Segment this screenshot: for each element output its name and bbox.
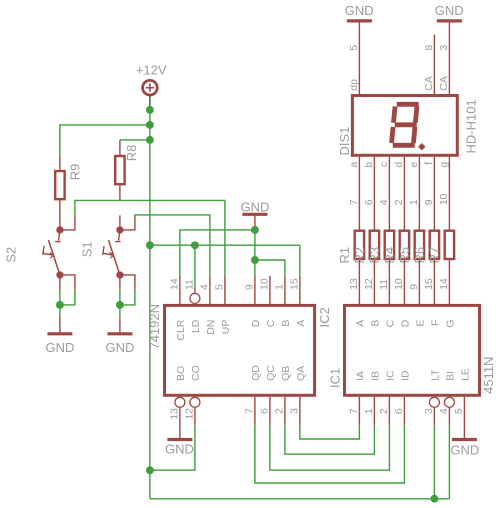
display pin letters a-g: [348, 162, 450, 168]
svg-text:R9: R9: [68, 164, 83, 181]
svg-text:5: 5: [213, 284, 225, 290]
svg-text:ID: ID: [399, 370, 411, 381]
display top pins dp and CA: [359, 23, 449, 95]
wire GND down to IC2 D pin: [254, 230, 256, 276]
resistor R6: [430, 231, 439, 259]
svg-text:LD: LD: [190, 319, 202, 333]
svg-text:c: c: [378, 162, 390, 167]
svg-text:7: 7: [348, 199, 360, 205]
svg-text:1: 1: [363, 408, 375, 414]
pin 13 bubble BO: [175, 397, 185, 407]
svg-text:15: 15: [423, 278, 435, 290]
svg-text:QA: QA: [295, 366, 307, 381]
ground below S1: [107, 317, 132, 333]
pin 4 bubble BI: [444, 397, 454, 407]
node switch S1 bottom contact: [116, 271, 123, 278]
svg-text:LE: LE: [459, 368, 471, 381]
svg-text:13: 13: [348, 278, 360, 290]
wire IC2 CO to +12V line bottom: [150, 408, 195, 471]
ground below IC1 pin 5: [452, 397, 477, 440]
svg-text:2: 2: [393, 199, 405, 205]
svg-text:14: 14: [168, 278, 180, 290]
svg-text:DN: DN: [205, 320, 217, 335]
svg-text:4: 4: [198, 284, 210, 290]
svg-text:IC2: IC2: [317, 307, 332, 327]
svg-text:dp: dp: [348, 79, 360, 91]
node junction S1 bottom: [116, 301, 124, 309]
svg-text:14: 14: [438, 278, 450, 290]
svg-text:A: A: [295, 320, 307, 327]
wire S1 top contact to IC2 DN pin: [120, 215, 210, 276]
seven segment digit 8: [392, 104, 419, 145]
svg-text:10: 10: [438, 193, 450, 205]
svg-text:2: 2: [378, 408, 390, 414]
svg-text:E: E: [414, 320, 426, 327]
svg-text:12: 12: [183, 408, 195, 420]
display pin labels dp CA CA: [348, 76, 450, 91]
display pin numbers bottom: [348, 193, 450, 205]
svg-text:8: 8: [423, 45, 435, 51]
pin names IC1 bottom: [354, 368, 471, 381]
svg-text:GND: GND: [165, 442, 194, 457]
svg-text:5: 5: [348, 45, 360, 51]
svg-text:4: 4: [438, 408, 450, 414]
svg-text:11: 11: [378, 279, 390, 290]
display DIS1 seven segment: [352, 96, 457, 156]
wire +12V to R8 top: [120, 139, 150, 141]
svg-text:B: B: [280, 320, 292, 327]
svg-text:9: 9: [243, 284, 255, 290]
svg-text:e: e: [408, 162, 420, 168]
resistor R9: [55, 155, 64, 216]
svg-text:11: 11: [183, 279, 195, 290]
svg-text:D: D: [399, 319, 411, 327]
pin numbers IC2 top: [168, 278, 300, 290]
svg-text:GND: GND: [435, 3, 464, 18]
svg-text:GND: GND: [105, 340, 134, 355]
node junction at B branch: [251, 256, 259, 264]
svg-text:IC: IC: [384, 370, 396, 381]
svg-text:BI: BI: [444, 371, 456, 381]
IC2 bottom right pins: [255, 397, 300, 425]
svg-text:15: 15: [288, 278, 300, 290]
svg-text:IC1: IC1: [328, 368, 343, 388]
wire +12V main vertical net: [149, 110, 151, 499]
svg-text:C: C: [384, 319, 396, 327]
svg-text:A: A: [354, 320, 366, 327]
wire bottom rail to LT and BI: [150, 425, 450, 499]
node junction CO tap on +12V line: [146, 466, 154, 474]
pin names IC1 top: [354, 319, 456, 328]
svg-text:QC: QC: [265, 365, 277, 381]
pin names IC2 top: [175, 319, 307, 340]
wire QB to IB: [285, 425, 375, 454]
svg-text:10: 10: [393, 278, 405, 290]
svg-text:GND: GND: [45, 340, 74, 355]
svg-text:9: 9: [423, 199, 435, 205]
resistor R3: [385, 231, 394, 259]
svg-text:GND: GND: [240, 199, 269, 214]
svg-text:IB: IB: [369, 371, 381, 381]
svg-text:3: 3: [438, 45, 450, 51]
svg-text:6: 6: [393, 408, 405, 414]
node junction LT BI: [431, 495, 439, 503]
node switch S2 bottom contact: [56, 271, 63, 278]
wire S1 pole down: [119, 290, 121, 305]
svg-text:4: 4: [378, 199, 390, 205]
node junction +12V at y4: [146, 241, 154, 249]
pin numbers IC1 top: [348, 278, 450, 290]
svg-text:74192N: 74192N: [147, 304, 162, 350]
svg-text:D: D: [250, 319, 262, 327]
pin of +12V symbol: [149, 95, 151, 110]
wire +12V to IC2 LD and A pins: [150, 245, 300, 288]
pin 12 bubble CO: [190, 397, 200, 407]
svg-text:12: 12: [363, 278, 375, 290]
decimal point: [418, 143, 425, 150]
node junction GND net: [251, 226, 259, 234]
svg-text:1: 1: [273, 284, 285, 290]
svg-text:CLR: CLR: [175, 319, 187, 340]
svg-text:d: d: [393, 162, 405, 168]
switch S1: [103, 215, 135, 290]
node junction LD tap: [191, 241, 199, 249]
node junction S2 bottom: [56, 301, 64, 309]
svg-text:CA: CA: [423, 76, 435, 91]
svg-text:B: B: [369, 320, 381, 327]
ground above display dp: [347, 19, 372, 22]
svg-text:1: 1: [408, 199, 420, 205]
svg-text:6: 6: [363, 199, 375, 205]
svg-text:R8: R8: [124, 145, 139, 162]
wire GND to IC2 B pin: [255, 260, 285, 276]
svg-text:10: 10: [258, 278, 270, 290]
svg-text:7: 7: [348, 408, 360, 414]
svg-text:LT: LT: [429, 369, 441, 381]
svg-text:HD-H101: HD-H101: [464, 99, 479, 153]
switch S2: [43, 215, 75, 290]
power symbol +12V P1: [143, 80, 158, 95]
svg-text:7: 7: [243, 408, 255, 414]
wire QA to IA: [300, 425, 360, 439]
resistor R8: [115, 140, 124, 201]
svg-text:3: 3: [288, 408, 300, 414]
svg-text:9: 9: [408, 284, 420, 290]
svg-text:3: 3: [423, 408, 435, 414]
wire +12V to R9 top: [60, 125, 150, 155]
wire S2 to GND: [59, 305, 61, 318]
IC 74192 counter IC2: [165, 276, 315, 396]
ground below IC2 pin 13: [167, 407, 192, 440]
svg-text:4511N: 4511N: [481, 357, 496, 394]
svg-text:2: 2: [273, 408, 285, 414]
svg-text:5: 5: [453, 408, 465, 414]
node switch S2 top contact: [56, 226, 63, 233]
svg-text:IA: IA: [354, 371, 366, 381]
resistor R4: [400, 231, 409, 259]
svg-text:g: g: [438, 162, 450, 168]
pin numbers IC1 bottom: [348, 408, 465, 414]
svg-text:DIS1: DIS1: [337, 127, 352, 156]
svg-text:BO: BO: [175, 366, 187, 381]
svg-text:GND: GND: [345, 3, 374, 18]
wire QC to IC: [270, 425, 390, 470]
svg-text:CA: CA: [438, 76, 450, 91]
node junction at R8 branch: [146, 136, 154, 144]
svg-text:S1: S1: [80, 241, 95, 257]
node switch S1 top contact: [116, 226, 123, 233]
resistor R1: [355, 231, 364, 259]
svg-text:b: b: [363, 162, 375, 168]
pin 11 bubble LD: [190, 293, 200, 303]
wire QD to ID: [255, 425, 405, 483]
wire S2 top contact to IC2 UP pin: [60, 200, 225, 275]
pin names IC2 bottom: [175, 365, 307, 381]
resistor R2: [370, 231, 379, 259]
resistor R7: [445, 231, 454, 259]
svg-text:F: F: [429, 320, 441, 326]
pin numbers IC2 bottom: [168, 408, 300, 420]
wire S2 pole down: [59, 290, 61, 305]
svg-text:QB: QB: [280, 366, 292, 381]
wire S1 to GND: [119, 305, 121, 318]
ground below S2: [47, 317, 72, 333]
display pin numbers top 5 8 3: [348, 45, 450, 51]
svg-text:a: a: [348, 162, 360, 168]
IC 4511 decoder IC1: [345, 276, 480, 426]
wire S1 throw to pole: [120, 290, 135, 305]
node junction on +12V line at R9 tap: [146, 106, 154, 114]
svg-text:GND: GND: [450, 443, 479, 458]
svg-text:13: 13: [168, 408, 180, 420]
ground GND above IC2 area: [242, 214, 267, 230]
svg-text:CO: CO: [190, 365, 202, 381]
svg-text:6: 6: [258, 408, 270, 414]
svg-text:S2: S2: [3, 247, 18, 263]
pin 3 bubble LT: [429, 397, 439, 407]
svg-text:R1: R1: [337, 247, 352, 264]
resistor R5: [415, 231, 424, 259]
ground above display CA: [437, 19, 462, 22]
svg-text:UP: UP: [220, 320, 232, 335]
svg-text:+12V: +12V: [136, 63, 167, 78]
svg-text:f: f: [423, 162, 435, 165]
wires display segs through resistors to IC1: [359, 157, 449, 276]
svg-text:G: G: [444, 320, 456, 328]
wire S2 throw to pole: [60, 290, 75, 305]
svg-text:C: C: [265, 319, 277, 327]
node junction at R9 branch: [146, 121, 154, 128]
svg-text:QD: QD: [250, 365, 262, 381]
wire GND to IC2 CLR pin: [180, 230, 255, 276]
